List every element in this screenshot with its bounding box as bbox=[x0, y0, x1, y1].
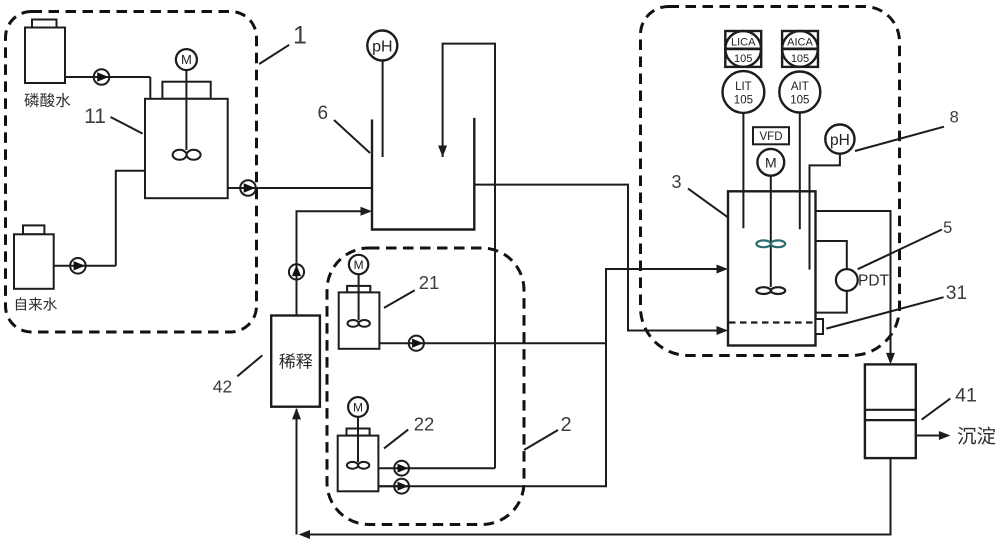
pump P6 (tank 22 upper outlet) bbox=[378, 467, 495, 469]
svg-text:VFD: VFD bbox=[760, 131, 783, 143]
svg-text:5: 5 bbox=[943, 219, 952, 237]
PDT sensor loop bbox=[816, 241, 847, 269]
label 3 leader line bbox=[688, 189, 728, 218]
label 8 leader line bbox=[855, 127, 944, 151]
svg-text:M: M bbox=[181, 52, 192, 67]
label 5 leader line bbox=[858, 230, 942, 270]
svg-text:41: 41 bbox=[955, 385, 977, 407]
return riser into vessel 42 bbox=[296, 409, 298, 535]
wire: vessel 42 to pump P4 to tank 6 bbox=[297, 211, 371, 315]
wire: pump P2 to vessel 11 left bbox=[116, 171, 145, 266]
svg-text:6: 6 bbox=[318, 103, 329, 124]
svg-text:42: 42 bbox=[213, 377, 232, 397]
impeller of tank 22 bbox=[347, 462, 358, 469]
tank: tap water (自来水) bbox=[23, 225, 44, 234]
svg-text:21: 21 bbox=[419, 272, 440, 293]
settler vessel 41 bbox=[865, 364, 916, 458]
label 自来水 bbox=[16, 297, 26, 310]
svg-text:M: M bbox=[354, 258, 364, 272]
wire: pump P7 to reactor inlet bbox=[378, 269, 726, 486]
pump P1 bbox=[94, 69, 110, 85]
label 41 leader line bbox=[922, 399, 951, 420]
svg-text:PDT: PDT bbox=[858, 273, 890, 290]
label 沉淀 (sediment) bbox=[958, 427, 976, 445]
label 磷酸水 bbox=[24, 93, 39, 107]
wire: recycle drop pipe into tank 6 bbox=[443, 44, 495, 469]
dashed boundary region 3 bbox=[641, 7, 900, 356]
agitator shaft of reactor bbox=[770, 176, 772, 287]
pump P5 (tank 21 outlet) bbox=[379, 342, 606, 344]
dashed boundary region 1 bbox=[6, 12, 257, 333]
label 6 leader line bbox=[334, 120, 370, 153]
label 2 leader line bbox=[524, 430, 558, 450]
svg-text:M: M bbox=[353, 401, 363, 415]
level dip tube (LIT) bbox=[742, 113, 744, 228]
wire: reactor outlet to settler 41 bbox=[816, 211, 891, 361]
svg-text:31: 31 bbox=[946, 283, 967, 304]
VFD box bbox=[753, 127, 789, 144]
lower impeller bbox=[756, 287, 770, 294]
motor M of vessel 11 bbox=[176, 49, 197, 70]
svg-text:LICA: LICA bbox=[731, 37, 756, 49]
svg-text:8: 8 bbox=[950, 109, 959, 127]
pH dip tube bbox=[810, 154, 840, 270]
label 31 leader line bbox=[826, 297, 943, 328]
label 21 leader line bbox=[384, 290, 415, 308]
svg-text:AIT: AIT bbox=[791, 81, 809, 93]
wire: tank to pump P1 bbox=[65, 76, 150, 78]
mixing vessel 11 body bbox=[162, 82, 210, 99]
upper impeller (teal) bbox=[756, 240, 770, 247]
settler outlet arrow to sediment bbox=[916, 435, 944, 437]
svg-text:AICA: AICA bbox=[787, 37, 813, 49]
agitator shaft of tank 22 bbox=[357, 417, 359, 462]
svg-text:3: 3 bbox=[671, 172, 681, 192]
additive tank 21 bbox=[347, 286, 370, 293]
AIT 105 instrument bbox=[779, 72, 820, 113]
reactor 3 body bbox=[728, 191, 816, 345]
motor M of tank 21 bbox=[349, 255, 368, 274]
svg-text:11: 11 bbox=[84, 105, 106, 128]
svg-text:105: 105 bbox=[790, 95, 809, 107]
svg-text:2: 2 bbox=[560, 414, 571, 436]
label 22 leader line bbox=[384, 430, 408, 449]
impeller of vessel 11 bbox=[173, 150, 187, 160]
wire: tank to pump P2 bbox=[54, 265, 116, 267]
dilution vessel 42 (稀释) bbox=[271, 316, 320, 407]
label 42 leader line bbox=[237, 355, 262, 376]
agitator shaft of tank 21 bbox=[358, 274, 360, 320]
membrane dashed partition inside reactor bbox=[729, 321, 815, 323]
PDT sensor bbox=[836, 269, 858, 291]
LIT 105 instrument bbox=[723, 71, 765, 113]
pump P4 bbox=[289, 264, 304, 279]
svg-text:105: 105 bbox=[791, 53, 809, 65]
tank: phosphoric acid water (磷酸水) bbox=[32, 20, 57, 28]
svg-text:M: M bbox=[765, 155, 777, 171]
svg-text:LIT: LIT bbox=[735, 81, 752, 93]
pH sensor of reactor bbox=[825, 125, 854, 154]
pH sensor of tank 6 bbox=[382, 61, 384, 158]
svg-text:105: 105 bbox=[734, 53, 752, 65]
wire: pump P1 to vessel 11 top bbox=[149, 77, 151, 99]
wire: tank 6 outlet to reactor bottom inlet bbox=[474, 185, 726, 331]
AICA 105 instrument bbox=[782, 31, 818, 67]
membrane outlet port 31 bbox=[816, 319, 824, 334]
tank 6 (open-top vessel) bbox=[372, 118, 474, 230]
motor M of tank 22 bbox=[348, 397, 368, 417]
svg-text:1: 1 bbox=[293, 22, 307, 50]
motor M of reactor bbox=[757, 149, 784, 176]
dashed boundary region 2 bbox=[327, 248, 524, 525]
LICA 105 instrument bbox=[725, 31, 761, 67]
pump P7 (tank 22 lower outlet) bbox=[378, 485, 409, 487]
pump P3 (vessel 11 outlet) bbox=[228, 187, 372, 189]
label 11 leader line bbox=[111, 117, 143, 134]
agitator shaft of vessel 11 bbox=[185, 70, 187, 150]
svg-text:pH: pH bbox=[830, 132, 850, 149]
impeller of tank 21 bbox=[348, 320, 359, 327]
additive tank 22 bbox=[347, 429, 370, 436]
svg-text:22: 22 bbox=[414, 414, 435, 435]
svg-text:pH: pH bbox=[372, 39, 392, 56]
return wire: settler bottom to dilution vessel 42 bbox=[307, 458, 891, 534]
svg-text:105: 105 bbox=[734, 95, 753, 107]
label 1 leader line bbox=[259, 45, 289, 64]
analyzer dip tube (AIT) bbox=[799, 113, 801, 230]
pump P2 bbox=[70, 258, 86, 274]
